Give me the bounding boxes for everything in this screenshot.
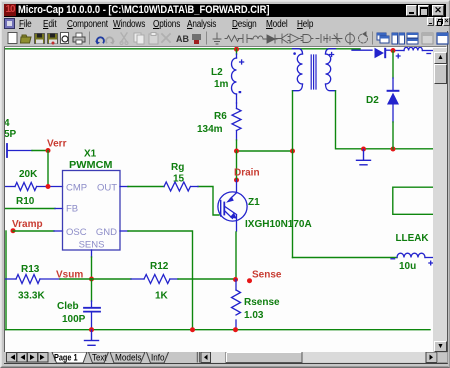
wire to Verr node bbox=[32, 150, 48, 152]
svg-text:Info: Info bbox=[151, 353, 165, 363]
wire D2 branch bbox=[392, 51, 394, 78]
wire secondary return bbox=[336, 91, 434, 149]
wire L2 top stub bbox=[236, 49, 238, 54]
node Verr bbox=[46, 148, 51, 153]
app icon MC10 bbox=[4, 4, 16, 16]
svg-text:Models: Models bbox=[115, 353, 142, 363]
node CMP junction bbox=[46, 184, 51, 189]
svg-text:OUT: OUT bbox=[97, 183, 117, 194]
transformer T1 bbox=[293, 49, 336, 91]
ground (under Cleb) bbox=[85, 330, 99, 345]
wire top bus bbox=[5, 48, 360, 50]
op-amp box X1 PWMCM bbox=[63, 171, 121, 251]
svg-text:1.03: 1.03 bbox=[244, 310, 264, 321]
node top junction of L2 bbox=[234, 47, 239, 52]
svg-text:OSC: OSC bbox=[66, 227, 87, 238]
title text bbox=[18, 4, 341, 17]
svg-text:33.3K: 33.3K bbox=[18, 291, 45, 302]
wire drain vertical bbox=[236, 151, 238, 180]
resistor R12 bbox=[131, 275, 178, 284]
pin OUT stub bbox=[120, 186, 128, 188]
wire gate bbox=[198, 187, 219, 216]
menu bar bbox=[4, 17, 446, 31]
svg-text:Verr: Verr bbox=[47, 139, 67, 150]
ground (secondary) bbox=[357, 150, 371, 165]
node D2 top bbox=[391, 48, 396, 53]
wire R13 to Vsum bbox=[60, 278, 92, 280]
svg-text:5P: 5P bbox=[5, 129, 17, 140]
wire SENS down bbox=[91, 257, 93, 279]
svg-text:GND: GND bbox=[96, 227, 117, 238]
wire bottom bus bbox=[5, 329, 430, 331]
wire left rail bbox=[5, 231, 7, 330]
svg-text:1K: 1K bbox=[155, 291, 169, 302]
svg-text:IXGH10N170A: IXGH10N170A bbox=[245, 219, 312, 230]
wire L2/R6 branch to bus bbox=[236, 140, 238, 151]
wire D2 to return bbox=[392, 122, 394, 149]
wire Vsum to Cleb bbox=[91, 279, 93, 301]
svg-text:L2: L2 bbox=[211, 67, 223, 78]
pin FB stub bbox=[55, 208, 63, 210]
node ground junction bbox=[361, 147, 366, 152]
svg-text:100P: 100P bbox=[62, 314, 86, 325]
wire top-right blue lead segment bbox=[352, 49, 372, 51]
wire R12 to Sense bbox=[178, 278, 236, 280]
svg-text:PWMCM: PWMCM bbox=[69, 160, 113, 171]
wire FB bbox=[4, 208, 55, 210]
wire OUT to Rg bbox=[128, 186, 164, 188]
diode D1 bbox=[375, 48, 392, 58]
resistor R13 bbox=[4, 275, 60, 284]
node drain bus left bbox=[234, 149, 239, 154]
transistor Z1 IGBT bbox=[218, 192, 247, 231]
wire Vsum to R12 bbox=[92, 278, 132, 280]
wire GND run bbox=[128, 231, 193, 330]
svg-text:X1: X1 bbox=[84, 149, 97, 160]
pin OSC stub bbox=[54, 230, 63, 232]
wire Verr down bbox=[47, 151, 49, 187]
svg-text:Page 1: Page 1 bbox=[54, 353, 78, 364]
svg-text:Vsum: Vsum bbox=[56, 270, 83, 281]
svg-text:CMP: CMP bbox=[66, 183, 87, 194]
transformer core bbox=[311, 55, 316, 89]
svg-text:R13: R13 bbox=[21, 264, 40, 275]
svg-text:134m: 134m bbox=[197, 124, 223, 135]
svg-text:Text: Text bbox=[92, 353, 107, 363]
box component (clipped right) bbox=[393, 187, 434, 214]
svg-text:Rg: Rg bbox=[171, 162, 184, 173]
svg-text:FB: FB bbox=[66, 204, 78, 215]
capacitor C4 (clipped left) bbox=[7, 144, 32, 157]
node Cleb bottom bbox=[89, 327, 94, 332]
wire primary return bbox=[292, 91, 294, 258]
wire OSC bbox=[13, 230, 54, 232]
svg-text:Drain: Drain bbox=[234, 168, 260, 179]
svg-text:SENS: SENS bbox=[79, 240, 105, 251]
inductor LLEAK bbox=[391, 253, 433, 265]
svg-text:1m: 1m bbox=[214, 79, 229, 90]
inductor L1 (top right, partially clipped) bbox=[395, 47, 433, 58]
svg-text:R10: R10 bbox=[16, 196, 35, 207]
inductor L2 bbox=[232, 54, 244, 103]
node Sense junction bbox=[233, 277, 238, 282]
node Rsense bottom bbox=[233, 327, 238, 332]
vertical scrollbar bbox=[433, 48, 447, 352]
resistor R6 bbox=[232, 103, 241, 140]
capacitor Cleb bbox=[84, 301, 100, 330]
node Sense label anchor bbox=[247, 278, 252, 283]
svg-text:Z1: Z1 bbox=[248, 197, 260, 208]
svg-text:D2: D2 bbox=[366, 95, 379, 106]
child window buttons bbox=[427, 17, 434, 26]
svg-text:R6: R6 bbox=[214, 111, 227, 122]
pin GND stub bbox=[120, 230, 128, 232]
resistor Rg bbox=[164, 182, 198, 191]
resistor Rsense bbox=[232, 280, 241, 330]
svg-text:AB: AB bbox=[176, 34, 189, 44]
svg-text:Cleb: Cleb bbox=[57, 301, 79, 312]
wire to LLEAK bbox=[293, 257, 398, 259]
pin SENS stub bbox=[91, 250, 93, 257]
svg-text:Rsense: Rsense bbox=[244, 297, 280, 308]
node Vsum bbox=[89, 277, 94, 282]
bottom tab/scroll bar bbox=[4, 352, 447, 363]
child doc icon bbox=[4, 18, 15, 29]
svg-text:Sense: Sense bbox=[252, 270, 282, 281]
title bar bbox=[4, 4, 446, 17]
node GND run bottom bbox=[190, 327, 195, 332]
svg-text:10u: 10u bbox=[399, 261, 416, 272]
node drain bus right bbox=[290, 149, 295, 154]
svg-text:15: 15 bbox=[173, 174, 185, 185]
title buttons bbox=[406, 5, 417, 16]
node Vramp bbox=[11, 228, 16, 233]
resistor R10 bbox=[4, 183, 63, 191]
toolbar bbox=[4, 31, 446, 47]
node Drain bbox=[234, 178, 239, 183]
node D2 bottom bbox=[391, 147, 396, 152]
wire drain bus horizontal bbox=[237, 150, 293, 152]
svg-text:R12: R12 bbox=[150, 261, 169, 272]
diode D2 bbox=[387, 78, 400, 122]
svg-text:4: 4 bbox=[5, 118, 10, 129]
svg-text:Vramp: Vramp bbox=[12, 219, 43, 230]
svg-text:20K: 20K bbox=[19, 169, 38, 180]
wire emitter to sense bbox=[235, 232, 237, 280]
svg-text:LLEAK: LLEAK bbox=[396, 233, 430, 244]
